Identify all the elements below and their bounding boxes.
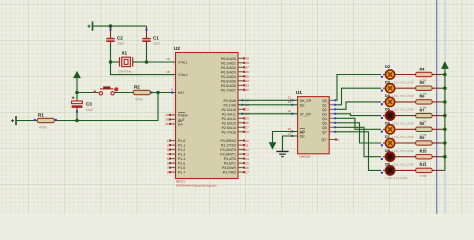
junction node C3 bottom xyxy=(75,119,79,123)
label LED-YELLOW (D3) xyxy=(385,94,414,98)
svg-text:P1.6: P1.6 xyxy=(178,166,185,170)
U2 pin P1.4 xyxy=(167,157,185,161)
junction node reset top xyxy=(75,91,79,95)
svg-text:P2.6/A14: P2.6/A14 xyxy=(222,126,236,130)
resistor R6 xyxy=(395,95,445,110)
svg-text:R11: R11 xyxy=(420,163,427,167)
svg-text:74HC595: 74HC595 xyxy=(299,155,311,159)
svg-text:P2.0/A8: P2.0/A8 xyxy=(224,99,237,103)
svg-text:P3.0/RXD: P3.0/RXD xyxy=(220,139,236,143)
U2 pin ALE xyxy=(165,118,185,122)
svg-text:P1.0: P1.0 xyxy=(178,139,185,143)
sheet guide line (faint, under LED supply rail) xyxy=(444,0,446,214)
svg-text:Q3: Q3 xyxy=(322,112,327,116)
svg-text:Q2: Q2 xyxy=(322,108,327,112)
svg-text:33: 33 xyxy=(245,84,249,88)
U1 pin SH_CP xyxy=(288,96,312,103)
junction node rail row 2 xyxy=(443,86,447,90)
U2 pin P2.1/A9 (connected) xyxy=(224,103,250,107)
wire XTAL1 net to U2 xyxy=(147,61,176,63)
svg-text:7: 7 xyxy=(167,166,169,170)
svg-text:ST_CP: ST_CP xyxy=(300,112,312,116)
U1 pin Q5 xyxy=(322,121,336,127)
U2 pin P3.5/T1 xyxy=(224,161,249,165)
svg-text:39: 39 xyxy=(245,57,249,61)
U2 pin P2.4/A12 xyxy=(222,117,250,121)
LED D7 (lit) xyxy=(381,138,395,147)
svg-text:P1.5: P1.5 xyxy=(178,162,185,166)
U2 pin P3.7/RD xyxy=(223,170,249,174)
svg-text:C3: C3 xyxy=(86,101,92,106)
svg-text:PROGRAM=Objects\\Debug.hex: PROGRAM=Objects\\Debug.hex xyxy=(176,184,217,188)
power terminal arrow (reset circuit supply) xyxy=(74,72,81,93)
svg-text:P3.4/T0: P3.4/T0 xyxy=(224,157,236,161)
LED D5 (off) xyxy=(381,111,395,120)
svg-text:D2: D2 xyxy=(385,64,391,69)
U2 pin EA xyxy=(165,122,183,127)
svg-text:23: 23 xyxy=(245,108,249,112)
svg-text:RST: RST xyxy=(178,91,184,95)
svg-text:P0.7/AD7: P0.7/AD7 xyxy=(221,88,236,92)
svg-text:P2.1/A9: P2.1/A9 xyxy=(224,103,237,107)
U2 pin P2.5/A13 xyxy=(222,121,250,125)
svg-text:U2: U2 xyxy=(174,46,180,51)
svg-text:LED-YELLOW: LED-YELLOW xyxy=(392,149,414,153)
svg-text:38: 38 xyxy=(245,61,249,65)
wire C2 lead down to crystal node xyxy=(110,45,112,62)
svg-text:P0.2/AD2: P0.2/AD2 xyxy=(221,66,236,70)
svg-text:DS: DS xyxy=(300,103,306,107)
U2 pin P0.1/AD1 xyxy=(221,61,249,65)
U2 pin P0.0/AD0 xyxy=(221,57,249,61)
junction node rail row 6 xyxy=(443,141,447,145)
svg-text:1: 1 xyxy=(167,139,169,143)
U1 pin Q0 xyxy=(322,99,336,105)
svg-text:U1: U1 xyxy=(296,90,302,95)
svg-text:27: 27 xyxy=(245,126,249,130)
wire Q6 to LED D8 xyxy=(336,127,381,156)
wire Q4 to LED D6 xyxy=(336,118,381,129)
wire XTAL2 net: down and right to U2 xyxy=(111,62,176,75)
svg-text:10: 10 xyxy=(288,127,292,131)
svg-text:26: 26 xyxy=(245,121,249,125)
svg-text:LED-YELLOW: LED-YELLOW xyxy=(392,121,414,125)
svg-text:10: 10 xyxy=(245,139,249,143)
wire Q7 to LED D9 xyxy=(336,132,381,171)
power terminal (top-left, +5V rail for crystal caps) xyxy=(88,22,93,31)
U1 pin Q6 xyxy=(322,126,336,132)
U1 pin DS xyxy=(288,100,306,107)
U2 pin P1.5 xyxy=(167,161,185,165)
svg-text:P1.7: P1.7 xyxy=(178,171,185,175)
svg-text:28: 28 xyxy=(245,130,249,134)
junction node rail row 3 xyxy=(443,100,447,104)
svg-text:R7: R7 xyxy=(420,108,425,112)
label LED-YELLOW (D6) xyxy=(385,135,414,139)
resistor R9 xyxy=(395,136,445,151)
junction node rail row 1 xyxy=(443,73,447,77)
wire Q2 to LED D4 xyxy=(336,102,381,109)
svg-text:10uF: 10uF xyxy=(86,108,93,112)
svg-text:P0.5/AD5: P0.5/AD5 xyxy=(221,79,236,83)
U1 pin Q3 xyxy=(322,112,336,118)
svg-text:LED-YELLOW: LED-YELLOW xyxy=(392,163,414,167)
svg-text:12: 12 xyxy=(288,109,292,113)
svg-text:X1: X1 xyxy=(122,51,128,56)
wire Q3 to LED D5 xyxy=(336,114,381,116)
svg-text:R2: R2 xyxy=(134,84,140,89)
svg-text:P1.4: P1.4 xyxy=(178,157,185,161)
U2 pin P2.7/A15 xyxy=(222,130,250,134)
svg-text:31: 31 xyxy=(165,122,169,126)
svg-text:SH_CP: SH_CP xyxy=(300,99,312,103)
svg-text:P2.3/A11: P2.3/A11 xyxy=(222,112,236,116)
U2 pin P2.0/A8 (connected) xyxy=(224,99,250,103)
junction node rail row 7 xyxy=(443,155,447,159)
svg-text:P1.2: P1.2 xyxy=(178,148,185,152)
wire crystal right lead to XTAL1 node xyxy=(133,61,147,63)
svg-text:Q7': Q7' xyxy=(321,138,327,142)
svg-text:11: 11 xyxy=(288,96,291,100)
junction node RST net xyxy=(156,91,160,95)
svg-text:Q0: Q0 xyxy=(322,99,327,103)
power terminal arrow (LED supply) xyxy=(442,62,449,69)
svg-text:LED-YELLOW: LED-YELLOW xyxy=(392,80,414,84)
svg-text:LED-YELLOW: LED-YELLOW xyxy=(392,135,414,139)
U2 pin P2.2/A10 xyxy=(222,108,250,112)
U2 pin P3.6/WR xyxy=(222,166,249,170)
svg-text:17: 17 xyxy=(245,170,249,174)
U2 pin P1.1 xyxy=(167,143,185,147)
svg-text:2: 2 xyxy=(167,143,169,147)
wire RST net down to R1/C3 row xyxy=(56,93,158,121)
U2 pin P0.2/AD2 xyxy=(221,66,249,70)
svg-text:Q4: Q4 xyxy=(322,117,327,121)
U2 pin P3.3/INT1 xyxy=(220,152,249,156)
wire R2 to RST pin xyxy=(150,92,175,94)
wire Q5 to LED D7 xyxy=(336,123,381,143)
svg-text:MR: MR xyxy=(300,130,306,134)
svg-text:8: 8 xyxy=(167,170,169,174)
svg-text:LED-YELLOW: LED-YELLOW xyxy=(392,108,414,112)
svg-text:P3.7/RD: P3.7/RD xyxy=(223,171,237,175)
LED D8 (off) xyxy=(381,152,395,161)
U2 pin P0.5/AD5 xyxy=(221,79,249,83)
capacitor C1 xyxy=(142,26,160,47)
U2 pin P0.4/AD4 xyxy=(221,75,249,79)
wire C1 lead down xyxy=(146,45,148,62)
crystal X1 xyxy=(119,51,133,74)
U1 pin Q1 xyxy=(322,103,336,109)
svg-text:13: 13 xyxy=(245,152,249,156)
U2 pin P3.0/RXD xyxy=(220,139,249,143)
resistor R4 xyxy=(395,67,445,82)
LED D4 (lit) xyxy=(381,97,395,106)
svg-text:12: 12 xyxy=(245,148,249,152)
svg-text:CRYSTAL: CRYSTAL xyxy=(119,70,133,74)
svg-text:470R: 470R xyxy=(39,125,47,129)
junction node rail row 4 xyxy=(443,114,447,118)
svg-text:P2.4/A12: P2.4/A12 xyxy=(222,117,236,121)
junction node crystal right / C1 bottom xyxy=(145,60,149,64)
U2 pin P1.3 xyxy=(167,152,185,156)
LED D9 (off) xyxy=(381,166,395,175)
wire P2.3 to U1 ST_CP xyxy=(238,113,292,115)
U2 pin P0.7/AD7 xyxy=(221,88,249,92)
U2 pin P3.4/T0 xyxy=(224,157,249,161)
svg-text:D7: D7 xyxy=(385,135,390,139)
U1 pin Q4 xyxy=(322,117,336,123)
U1 pin Q7' xyxy=(321,138,339,142)
U1 pin ST_CP xyxy=(288,109,312,116)
svg-text:R10: R10 xyxy=(420,150,427,154)
capacitor C2 xyxy=(106,26,124,47)
svg-text:6: 6 xyxy=(167,161,169,165)
svg-text:P3.5/T1: P3.5/T1 xyxy=(224,162,236,166)
U2 pin P0.6/AD6 xyxy=(221,84,249,88)
svg-text:C2: C2 xyxy=(117,35,123,40)
svg-text:P1.1: P1.1 xyxy=(178,144,185,148)
LED D6 (lit) xyxy=(381,125,395,134)
svg-text:22pF: 22pF xyxy=(153,41,160,45)
sheet border (right edge of schematic page) xyxy=(436,0,438,214)
svg-text:34: 34 xyxy=(245,79,249,83)
svg-text:32: 32 xyxy=(245,88,249,92)
svg-text:LED-YELLOW: LED-YELLOW xyxy=(392,94,414,98)
U1 pin Q2 xyxy=(322,108,336,114)
svg-text:D8: D8 xyxy=(385,149,390,153)
svg-text:29: 29 xyxy=(165,113,169,117)
resistor R7 xyxy=(395,108,445,123)
svg-text:30: 30 xyxy=(165,118,169,122)
svg-text:ALE: ALE xyxy=(178,118,185,122)
svg-text:470R: 470R xyxy=(135,97,143,101)
U2 pin P1.0 xyxy=(167,139,185,143)
U2 pin PSEN xyxy=(165,113,188,118)
U2 pin P1.7 xyxy=(167,170,185,174)
U1 pin OE xyxy=(288,131,306,138)
svg-text:16: 16 xyxy=(245,166,249,170)
wire crystal left lead xyxy=(111,61,120,63)
svg-text:4: 4 xyxy=(167,152,169,156)
svg-text:PSEN: PSEN xyxy=(178,113,188,117)
U2 RST pin blue marker xyxy=(171,92,173,94)
resistor R5 xyxy=(395,81,445,96)
LED D2 (lit) xyxy=(381,70,395,79)
svg-text:P2.2/A10: P2.2/A10 xyxy=(222,108,236,112)
svg-text:P0.6/AD6: P0.6/AD6 xyxy=(221,84,236,88)
svg-text:14: 14 xyxy=(288,100,292,104)
svg-text:P0.3/AD3: P0.3/AD3 xyxy=(221,70,236,74)
label LED-YELLOW (D9) xyxy=(386,176,408,180)
junction node rail row 5 xyxy=(443,128,447,132)
svg-text:14: 14 xyxy=(245,157,249,161)
svg-text:R8: R8 xyxy=(420,122,425,126)
svg-text:18: 18 xyxy=(166,70,170,74)
wire OE to ground xyxy=(283,136,298,151)
svg-text:Q5: Q5 xyxy=(322,121,327,125)
svg-text:R1: R1 xyxy=(38,112,44,117)
resistor R10 xyxy=(395,150,445,165)
svg-text:OE: OE xyxy=(300,135,306,139)
wire P2.1 to U1 DS xyxy=(238,104,292,106)
ground terminal (left of R1) xyxy=(11,116,16,125)
wire top rail from power terminal to C1/C2 xyxy=(93,25,147,27)
capacitor C3 (electrolytic) xyxy=(72,93,94,121)
U2 pin P3.2/INT0 xyxy=(220,148,249,152)
svg-text:D6: D6 xyxy=(385,121,390,125)
svg-text:11: 11 xyxy=(245,143,248,147)
svg-text:P0.1/AD1: P0.1/AD1 xyxy=(221,61,236,65)
svg-text:3: 3 xyxy=(167,148,169,152)
svg-text:R5: R5 xyxy=(420,81,425,85)
svg-text:P1.3: P1.3 xyxy=(178,153,185,157)
junction node crystal left xyxy=(109,60,113,64)
U2 pin P1.6 xyxy=(167,166,185,170)
svg-text:P3.2/INT0: P3.2/INT0 xyxy=(220,148,236,152)
push button (reset) xyxy=(94,86,119,95)
wire Q0 to LED D2 xyxy=(336,75,381,101)
ground symbol xyxy=(276,152,288,157)
svg-text:P3.6/WR: P3.6/WR xyxy=(222,166,236,170)
svg-text:Q7: Q7 xyxy=(322,130,327,134)
svg-text:EA: EA xyxy=(178,122,183,126)
svg-text:P2.5/A13: P2.5/A13 xyxy=(222,121,236,125)
label LED-YELLOW (D8) xyxy=(385,163,414,167)
U2 pin P2.3/A11 (connected) xyxy=(222,112,249,116)
svg-text:15: 15 xyxy=(327,101,331,105)
op chip U2 body (80C51) xyxy=(174,46,238,188)
svg-text:9: 9 xyxy=(337,138,339,142)
svg-text:P3.1/TXD: P3.1/TXD xyxy=(221,144,237,148)
svg-text:R6: R6 xyxy=(420,95,425,99)
label LED-YELLOW (D4) xyxy=(385,108,414,112)
svg-text:P0.4/AD4: P0.4/AD4 xyxy=(221,75,236,79)
svg-text:LED-YELLOW: LED-YELLOW xyxy=(386,176,408,180)
resistor R2 xyxy=(133,84,152,101)
svg-text:5: 5 xyxy=(167,157,169,161)
svg-text:XTAL1: XTAL1 xyxy=(178,61,188,65)
U2 pin P3.1/TXD xyxy=(221,143,249,147)
svg-text:P3.3/INT1: P3.3/INT1 xyxy=(220,153,236,157)
U2 pin P2.6/A14 xyxy=(222,126,250,130)
U2 pin P0.3/AD3 xyxy=(221,70,249,74)
wire button to R2 xyxy=(115,92,134,94)
resistor R1 xyxy=(34,112,57,129)
svg-text:15: 15 xyxy=(245,161,249,165)
svg-text:35: 35 xyxy=(245,75,249,79)
svg-text:D3: D3 xyxy=(385,80,390,84)
svg-text:R9: R9 xyxy=(420,136,425,140)
ground arrow terminal xyxy=(269,143,276,150)
svg-text:470R: 470R xyxy=(420,174,428,178)
svg-text:Q6: Q6 xyxy=(322,126,327,130)
label LED-YELLOW (D5) xyxy=(385,121,414,125)
svg-text:22pF: 22pF xyxy=(117,41,124,45)
power rail vertical xyxy=(444,69,446,171)
resistor R8 xyxy=(395,122,445,137)
U1 pin MR xyxy=(288,127,306,134)
LED D3 (lit) xyxy=(381,84,395,93)
svg-text:Q1: Q1 xyxy=(322,103,327,107)
svg-text:19: 19 xyxy=(166,57,170,61)
junction node at C2 top xyxy=(109,24,113,28)
svg-text:P0.0/AD0: P0.0/AD0 xyxy=(221,57,236,61)
U1 pin Q7 xyxy=(322,130,336,136)
chip U1 body (74HC595) xyxy=(296,90,329,158)
svg-text:36: 36 xyxy=(245,70,249,74)
svg-text:D9: D9 xyxy=(385,163,390,167)
svg-text:P2.7/A15: P2.7/A15 xyxy=(222,130,236,134)
svg-text:C1: C1 xyxy=(153,35,159,40)
U2 pin P1.2 xyxy=(167,148,185,152)
wire Q1 to LED D3 xyxy=(336,88,381,105)
svg-text:D5: D5 xyxy=(385,108,390,112)
resistor R11 xyxy=(395,163,445,178)
wire MR to ground arrow xyxy=(273,132,298,143)
svg-text:37: 37 xyxy=(245,66,249,70)
wire terminal to R1 xyxy=(16,120,37,122)
svg-text:XTAL2: XTAL2 xyxy=(178,73,188,77)
label LED-YELLOW (D2) xyxy=(385,80,414,84)
label LED-YELLOW (D7) xyxy=(385,149,414,153)
wire P2.0 to U1 SH_CP xyxy=(238,99,292,101)
svg-text:25: 25 xyxy=(245,117,249,121)
wire power arrow to button xyxy=(77,92,99,94)
